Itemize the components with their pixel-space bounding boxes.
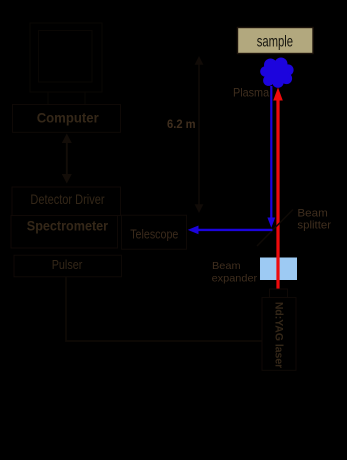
box Computer bbox=[13, 105, 121, 133]
box Pulser bbox=[14, 255, 121, 277]
svg-text:sample: sample bbox=[257, 34, 293, 51]
svg-text:6.2 m: 6.2 m bbox=[167, 117, 196, 131]
laser aperture box bbox=[270, 289, 288, 298]
svg-text:expander: expander bbox=[212, 272, 258, 284]
arrow Computer-DetectorDriver (double headed) bbox=[62, 134, 72, 184]
svg-text:Nd:YAG laser: Nd:YAG laser bbox=[273, 302, 285, 369]
arrow distance 6.2 m (double headed) bbox=[195, 56, 204, 213]
svg-text:splitter: splitter bbox=[297, 219, 331, 231]
plasma blob bbox=[260, 58, 293, 88]
svg-text:Telescope: Telescope bbox=[130, 227, 178, 242]
svg-text:Beam: Beam bbox=[212, 260, 241, 272]
light path plasma down (blue) bbox=[188, 86, 276, 234]
svg-text:Plasma: Plasma bbox=[233, 85, 269, 99]
svg-text:Pulser: Pulser bbox=[52, 257, 83, 272]
laser beam (red, up arrow) bbox=[273, 88, 283, 290]
box Spectrometer bbox=[11, 216, 118, 249]
svg-text:Computer: Computer bbox=[37, 110, 100, 126]
monitor outer frame bbox=[30, 23, 102, 92]
monitor stand bbox=[48, 92, 85, 105]
box Telescope bbox=[122, 215, 187, 249]
beam expander optics box (light blue) bbox=[260, 258, 297, 281]
monitor screen bbox=[39, 31, 93, 83]
box Nd:YAG laser bbox=[262, 298, 296, 371]
beam splitter diagonal bbox=[257, 210, 293, 247]
box sample bbox=[238, 28, 314, 54]
svg-text:Beam: Beam bbox=[297, 208, 327, 220]
red beam through expander bbox=[276, 258, 279, 281]
box Detector Driver bbox=[12, 187, 121, 216]
svg-text:Detector Driver: Detector Driver bbox=[30, 191, 104, 207]
svg-text:Spectrometer: Spectrometer bbox=[27, 218, 109, 234]
wire trigger Pulser to laser bbox=[66, 277, 262, 341]
